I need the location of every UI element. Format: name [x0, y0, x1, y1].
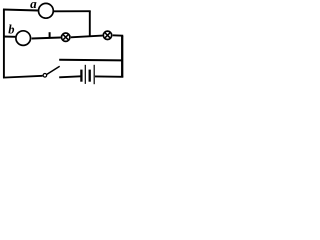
lamp L2 [103, 31, 111, 39]
switch S lever (open) [47, 66, 60, 74]
wire lamp L2 to right edge [113, 34, 124, 36]
wire b to lamp L1 [32, 38, 61, 39]
battery cell 2 negative plate [89, 70, 91, 82]
switch S pivot [43, 74, 47, 78]
wire bottom-left horizontal [3, 76, 43, 78]
wire vertical drop from a-branch to lamp row [89, 11, 91, 37]
wire top-left horizontal [3, 10, 38, 11]
battery cell 2 positive plate [93, 65, 95, 84]
battery cell 1 negative plate [80, 70, 82, 82]
lamp L1 [61, 33, 69, 41]
battery cell 1 positive plate [84, 65, 86, 84]
wire top-right horizontal [54, 10, 91, 12]
wire lamp L1 to lamp L2 through junction [71, 36, 103, 38]
wire right vertical edge [121, 36, 123, 78]
ammeter a [39, 3, 54, 18]
wire switch to battery [59, 76, 80, 77]
wire left vertical edge [3, 9, 5, 78]
ammeter b [16, 31, 31, 46]
svg-text:b: b [8, 23, 14, 37]
wire mid-left horizontal from left edge to b [3, 36, 15, 38]
tick junction stub on wire [49, 32, 51, 38]
wire battery to bottom-right corner [95, 75, 123, 77]
wire switch contact branch horizontal [59, 59, 122, 62]
svg-text:a: a [30, 0, 37, 11]
